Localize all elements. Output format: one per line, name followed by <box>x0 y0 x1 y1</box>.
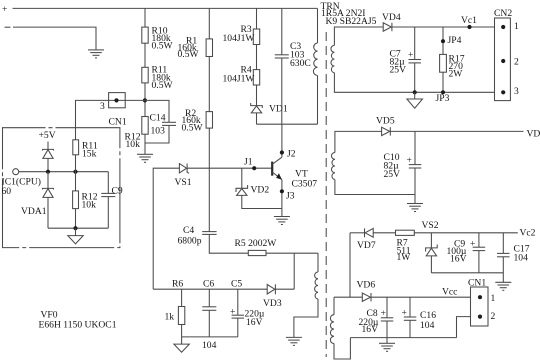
svg-text:C6: C6 <box>203 279 214 290</box>
svg-text:103: 103 <box>151 125 166 136</box>
transformer core dashed <box>325 32 327 357</box>
svg-text:R5 2002W: R5 2002W <box>235 238 278 249</box>
wire IC1 bottom rail <box>48 227 108 229</box>
wire VD2 to emitter ground <box>242 195 282 208</box>
svg-text:104: 104 <box>420 320 435 331</box>
capacitor C3 <box>281 8 283 54</box>
wire rail y=124.2 <box>257 123 318 125</box>
svg-text:6800p: 6800p <box>178 235 202 246</box>
svg-text:CN2: CN2 <box>494 8 512 19</box>
svg-text:+: + <box>230 307 235 318</box>
node J2 <box>280 150 284 154</box>
resistor R4 <box>253 70 259 85</box>
resistor R3 <box>256 8 258 29</box>
transistor VT <box>271 162 273 176</box>
wire left column x=145 <box>144 8 146 27</box>
svg-text:104: 104 <box>514 253 529 264</box>
svg-text:VD7: VD7 <box>357 240 376 251</box>
wire C4 to R5 <box>209 234 248 253</box>
svg-text:630C: 630C <box>290 58 311 69</box>
wire VD1 to rail <box>256 113 258 124</box>
svg-text:J3: J3 <box>286 191 295 202</box>
svg-text:C9: C9 <box>112 186 123 197</box>
wire C14 top <box>125 100 169 122</box>
svg-text:Vcc: Vcc <box>442 287 457 298</box>
wire <box>208 57 210 112</box>
pin circle IC1 <box>13 169 19 175</box>
svg-text:3: 3 <box>514 86 519 97</box>
svg-text:60: 60 <box>2 186 12 197</box>
capacitor C9 right <box>478 233 480 247</box>
ground earth top-left <box>88 50 104 58</box>
node C7 bottom <box>413 90 417 94</box>
svg-text:25V: 25V <box>384 169 401 180</box>
svg-text:16V: 16V <box>362 324 379 335</box>
svg-text:2: 2 <box>514 57 519 68</box>
svg-text:25V: 25V <box>390 65 407 76</box>
svg-text:C14: C14 <box>150 113 166 124</box>
svg-text:VD5: VD5 <box>376 116 395 127</box>
resistor R7 <box>396 230 415 235</box>
svg-text:C3507: C3507 <box>292 179 318 190</box>
ground earth aux winding <box>286 337 302 345</box>
ground triangle JP3 <box>414 92 416 99</box>
wire VD6 input <box>334 296 362 298</box>
resistor R17 <box>442 27 444 54</box>
wire <box>144 43 146 67</box>
wire CN1 pin2 <box>457 317 481 338</box>
svg-text:CN1: CN1 <box>109 117 127 128</box>
ground triangle R6 <box>181 337 183 344</box>
svg-text:10k: 10k <box>126 139 141 150</box>
terminal - <box>5 26 11 28</box>
resistor R5 <box>248 250 266 255</box>
wire R2 to C4 <box>208 128 210 232</box>
svg-text:3: 3 <box>100 101 105 112</box>
wire top bus <box>13 7 318 9</box>
svg-text:2W: 2W <box>449 69 464 80</box>
capacitor C17 <box>502 233 504 254</box>
ground earth under R12 <box>144 143 146 154</box>
ground triangle IC1 <box>75 228 77 235</box>
svg-text:VD: VD <box>527 129 540 140</box>
wire Vc1 <box>392 26 503 28</box>
svg-text:R6: R6 <box>172 279 183 290</box>
svg-text:J2: J2 <box>287 149 296 160</box>
IC1 box dash-dot <box>3 128 120 248</box>
wire branch to VD3 bus <box>293 253 295 289</box>
svg-text:+: + <box>408 50 413 61</box>
wire Vcc bottom rail <box>350 337 456 339</box>
node Vc1 <box>467 25 471 29</box>
svg-text:1k: 1k <box>165 312 175 323</box>
svg-text:JP3: JP3 <box>436 93 450 104</box>
ground earth C17 <box>495 282 511 290</box>
svg-text:0.5W: 0.5W <box>178 49 200 60</box>
svg-text:J1: J1 <box>244 156 253 167</box>
svg-text:0.5W: 0.5W <box>152 80 174 91</box>
svg-text:K9 SB22AJ5: K9 SB22AJ5 <box>326 16 377 27</box>
svg-text:VDA1: VDA1 <box>21 206 47 217</box>
zener VS2 <box>430 233 432 248</box>
wire VD3 bus <box>153 288 267 290</box>
wire Vcc <box>371 296 480 298</box>
wire <box>256 45 258 70</box>
svg-text:16V: 16V <box>246 317 263 328</box>
node J1 <box>252 166 256 170</box>
svg-text:VD4: VD4 <box>382 12 401 23</box>
wire minus lead <box>13 27 96 49</box>
wire R12 bottom rail <box>145 125 169 143</box>
wire <box>144 83 146 117</box>
wire <box>256 85 258 106</box>
svg-text:+: + <box>2 4 7 15</box>
diode VDA1 <box>47 172 49 189</box>
capacitor C7 <box>414 27 416 60</box>
svg-text:Vc1: Vc1 <box>461 15 477 26</box>
svg-text:2: 2 <box>491 311 496 322</box>
resistor R2 <box>206 112 212 129</box>
zener VD1 <box>251 103 263 113</box>
diode VS1 <box>179 164 189 174</box>
svg-text:104J1W: 104J1W <box>223 73 256 84</box>
svg-text:JP4: JP4 <box>448 35 462 46</box>
svg-text:0.5W: 0.5W <box>152 41 174 52</box>
capacitor C10 <box>414 131 416 164</box>
diode VD3 <box>267 284 275 294</box>
wire IC1 pin net <box>19 171 109 173</box>
wire VD7 branch <box>349 233 351 297</box>
diode +5V clamp <box>47 142 49 150</box>
svg-text:Vc2: Vc2 <box>520 228 536 239</box>
svg-text:10k: 10k <box>82 200 97 211</box>
wire Vc2 <box>414 232 518 234</box>
svg-text:VD1: VD1 <box>269 103 288 114</box>
svg-text:104J1W: 104J1W <box>223 33 256 44</box>
capacitor C8 <box>386 297 388 318</box>
svg-text:E66H 1150 UKOC1: E66H 1150 UKOC1 <box>39 320 117 331</box>
resistor R11 15k <box>73 140 79 155</box>
transformer secondary 3 <box>333 297 335 315</box>
capacitor C9 <box>107 172 109 194</box>
svg-text:VD6: VD6 <box>357 280 376 291</box>
ground earth VT <box>281 209 283 217</box>
ground earth C8 <box>386 338 388 344</box>
svg-text:VS1: VS1 <box>175 177 192 188</box>
transformer aux winding <box>317 253 319 272</box>
svg-text:C5: C5 <box>231 279 242 290</box>
transformer primary winding <box>317 8 319 43</box>
wire R5 to winding <box>266 252 318 254</box>
svg-text:1: 1 <box>514 21 519 32</box>
svg-text:0.5W: 0.5W <box>182 122 204 133</box>
resistor R1 <box>208 8 210 39</box>
svg-text:15k: 15k <box>82 149 97 160</box>
resistor R12 10k IC1 <box>75 172 77 191</box>
svg-text:+5V: +5V <box>39 130 56 141</box>
resistor R11 180k <box>142 67 148 83</box>
wire bottom rail R6C6C5 <box>182 336 238 338</box>
svg-text:VS2: VS2 <box>422 220 439 231</box>
svg-text:1W: 1W <box>397 252 412 263</box>
wire VS1 net <box>153 168 179 289</box>
svg-text:+: + <box>470 239 475 250</box>
svg-text:1: 1 <box>491 293 496 304</box>
transformer secondary 1 <box>334 27 383 45</box>
wire to J1 and base <box>187 167 272 169</box>
capacitor C14 <box>162 122 176 125</box>
connector CN1 pin 3 box <box>109 93 126 108</box>
capacitor C16 <box>409 297 411 317</box>
wire box to left <box>76 100 109 139</box>
wire VD output <box>390 130 523 132</box>
svg-text:104: 104 <box>202 340 217 351</box>
wire VS2 bottom rail <box>431 272 503 274</box>
resistor R10 <box>142 27 148 43</box>
node J3 <box>280 189 284 193</box>
wire VD3 to corner <box>275 288 294 290</box>
transformer secondary 2 <box>335 131 382 152</box>
svg-text:16V: 16V <box>450 254 467 265</box>
zener VD2 <box>241 168 243 188</box>
capacitor C4 <box>202 232 216 235</box>
diode VD7 <box>365 228 374 237</box>
svg-text:VD3: VD3 <box>263 298 282 309</box>
resistor R12 10k <box>142 117 148 135</box>
ground earth C10 <box>414 195 416 204</box>
svg-text:VD2: VD2 <box>251 185 270 196</box>
node junction at R12/C14 top <box>143 98 147 102</box>
